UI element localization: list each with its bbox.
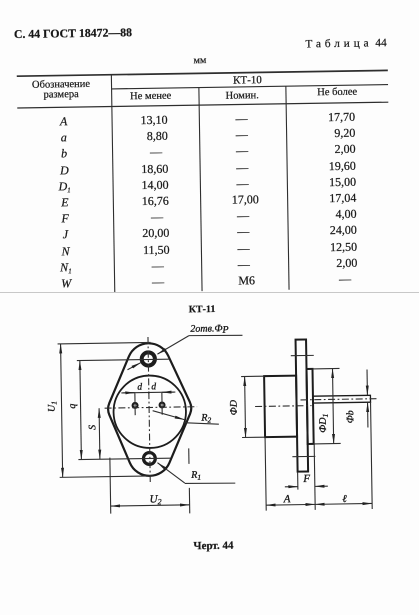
svg-text:F: F	[302, 473, 310, 485]
svg-text:d: d	[151, 382, 156, 392]
svg-text:R2: R2	[200, 412, 211, 424]
svg-text:Фb: Фb	[345, 410, 356, 423]
svg-text:ФD1: ФD1	[318, 414, 330, 433]
svg-text:ℓ: ℓ	[342, 494, 347, 505]
svg-text:d: d	[137, 383, 142, 393]
svg-text:A: A	[283, 493, 291, 505]
svg-text:S: S	[87, 425, 98, 430]
svg-text:2отв.ФР: 2отв.ФР	[190, 323, 228, 336]
svg-text:U2: U2	[149, 493, 161, 506]
svg-text:ФD: ФD	[228, 399, 239, 415]
svg-text:U1: U1	[46, 401, 58, 412]
svg-text:q: q	[67, 404, 78, 409]
svg-text:R1: R1	[190, 470, 201, 482]
